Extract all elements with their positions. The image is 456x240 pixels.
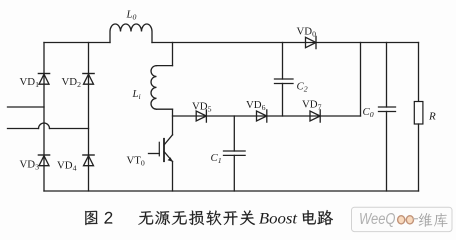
svg-text:WeeQ: WeeQ bbox=[359, 211, 396, 228]
svg-text:R: R bbox=[428, 111, 436, 123]
svg-text:Boost: Boost bbox=[259, 211, 298, 228]
